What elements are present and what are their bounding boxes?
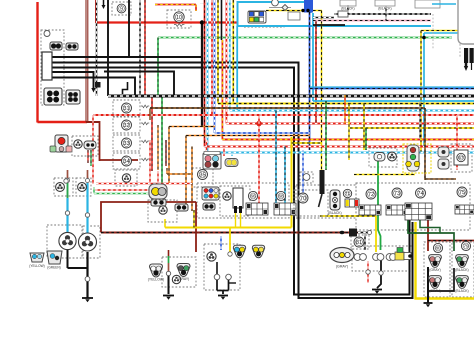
svg-text:(BLACK): (BLACK)	[328, 211, 341, 215]
svg-text:75: 75	[459, 190, 465, 196]
svg-text:72: 72	[368, 192, 374, 198]
svg-text:..........: ..........	[200, 1, 209, 5]
svg-text:66: 66	[250, 194, 256, 199]
svg-text:80: 80	[435, 246, 441, 251]
svg-text:9: 9	[120, 6, 123, 12]
svg-text:(YELLOW): (YELLOW)	[148, 277, 164, 281]
svg-text:67: 67	[459, 155, 464, 160]
svg-text:(GRAY): (GRAY)	[336, 265, 348, 269]
svg-text:10: 10	[176, 15, 182, 21]
svg-text:(GREEN): (GREEN)	[47, 266, 60, 270]
svg-text:74: 74	[417, 191, 423, 197]
svg-text:73: 73	[394, 191, 400, 197]
svg-text:(BLACK): (BLACK)	[455, 289, 468, 293]
svg-text:(GRAY): (GRAY)	[178, 277, 190, 281]
svg-text:.....: .....	[228, 1, 233, 5]
svg-text:35: 35	[199, 173, 205, 179]
svg-text:(BLACK): (BLACK)	[378, 6, 391, 10]
svg-text:34: 34	[123, 159, 129, 165]
svg-text:81: 81	[356, 240, 362, 246]
svg-text:70: 70	[300, 196, 306, 202]
svg-text:(YELLOW): (YELLOW)	[29, 264, 44, 268]
svg-text:(GRAY): (GRAY)	[429, 268, 441, 272]
svg-text:(GRAY): (GRAY)	[429, 289, 441, 293]
svg-text:71: 71	[345, 191, 350, 196]
svg-text:31: 31	[123, 106, 129, 112]
svg-text:68: 68	[278, 194, 284, 199]
svg-text:33: 33	[123, 141, 129, 147]
svg-text:32: 32	[123, 123, 129, 129]
svg-text:(BLACK): (BLACK)	[455, 268, 468, 272]
svg-text:79: 79	[463, 244, 469, 249]
